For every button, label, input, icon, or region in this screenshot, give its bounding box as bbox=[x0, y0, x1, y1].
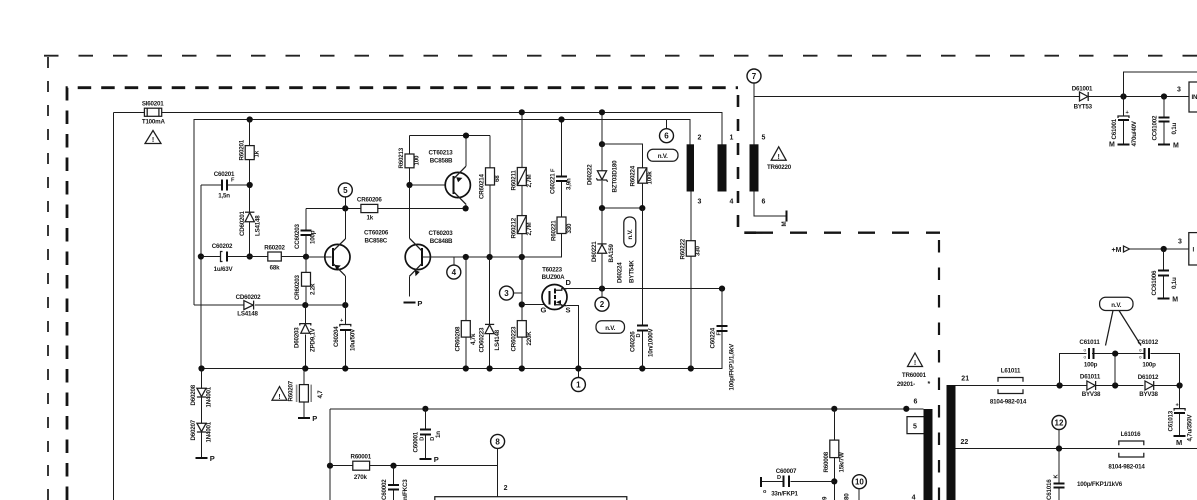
svg-text:n/FKC3: n/FKC3 bbox=[402, 479, 409, 500]
svg-text:C61013: C61013 bbox=[1168, 410, 1175, 431]
node collector rail right bbox=[463, 205, 469, 211]
svg-text:TR60001: TR60001 bbox=[902, 372, 927, 379]
wire: rail 21 bbox=[956, 385, 1087, 387]
svg-text:M: M bbox=[1109, 142, 1115, 149]
svg-text:10: 10 bbox=[855, 478, 864, 487]
svg-text:270k: 270k bbox=[354, 474, 368, 481]
warning triangle TR60001 bbox=[908, 353, 923, 367]
resistor CR60223 220K bbox=[511, 257, 534, 369]
svg-text:1N4001: 1N4001 bbox=[206, 386, 213, 407]
resistor CR60214 68 bbox=[479, 136, 502, 257]
transformer TR60001 primary winding bbox=[912, 398, 933, 500]
svg-text:L61011: L61011 bbox=[1001, 368, 1021, 375]
svg-text:R60222: R60222 bbox=[680, 238, 687, 259]
node emitter rail bbox=[463, 133, 469, 139]
svg-text:TR60220: TR60220 bbox=[767, 164, 792, 171]
svg-text:8104-982-014: 8104-982-014 bbox=[990, 399, 1027, 406]
svg-text:D61011: D61011 bbox=[1080, 374, 1101, 381]
svg-text:CR60206: CR60206 bbox=[357, 196, 383, 203]
node bottom rail x466 bbox=[463, 365, 469, 371]
svg-text:D60208: D60208 bbox=[190, 384, 197, 405]
svg-text:8: 8 bbox=[495, 437, 500, 446]
node bottom rail x642 bbox=[639, 365, 645, 371]
ground P below R60207 bbox=[298, 414, 317, 423]
ground M below CC61006 bbox=[1158, 296, 1179, 303]
wire: drain wire bbox=[567, 288, 722, 290]
node C61001 top bbox=[1120, 93, 1126, 99]
node snubber top x602 bbox=[599, 141, 605, 147]
svg-text:L61016: L61016 bbox=[1121, 431, 1142, 438]
node flag 2 bbox=[595, 289, 609, 312]
svg-text:D: D bbox=[636, 333, 642, 337]
node flag 10 bbox=[852, 475, 866, 500]
svg-text:o: o bbox=[1084, 355, 1087, 360]
node C60201/R60201 junction bbox=[247, 182, 253, 188]
svg-text:F: F bbox=[717, 332, 723, 336]
svg-text:R60224: R60224 bbox=[630, 165, 637, 186]
node CC61002 top bbox=[1161, 93, 1167, 99]
diode D60221 BA159 bbox=[591, 208, 615, 289]
svg-text:6: 6 bbox=[664, 132, 669, 141]
node base rail x466 bbox=[463, 254, 469, 260]
transformer TR60220 winding 5-6 bbox=[750, 135, 766, 206]
zener D60222 BZT03D180 bbox=[587, 144, 619, 208]
svg-text:P: P bbox=[417, 299, 422, 308]
svg-text:1k: 1k bbox=[254, 150, 261, 157]
resistor R60224 100k safety bbox=[630, 165, 654, 208]
svg-text:R60001: R60001 bbox=[351, 454, 372, 461]
svg-text:C61011: C61011 bbox=[1079, 339, 1100, 346]
svg-text:n.V.: n.V. bbox=[605, 325, 615, 332]
capacitor CC61002 0,1u bbox=[1152, 97, 1179, 144]
node winding pin6 bbox=[903, 406, 909, 412]
svg-text:CC60203: CC60203 bbox=[294, 223, 301, 249]
svg-text:IN: IN bbox=[1192, 94, 1197, 101]
node flag 6 bbox=[660, 120, 674, 143]
svg-text:100p/FKP1/1,6kV: 100p/FKP1/1,6kV bbox=[729, 343, 736, 391]
node flag 4 bbox=[447, 257, 461, 279]
inductor L61016 8104-982-014 bbox=[1108, 431, 1145, 471]
svg-text:330: 330 bbox=[566, 223, 573, 233]
svg-text:D60224: D60224 bbox=[617, 262, 624, 283]
zener D60203 ZPD9,1V bbox=[294, 305, 317, 368]
svg-text:9: 9 bbox=[822, 496, 829, 500]
wire: center tap of bypass bbox=[1114, 354, 1116, 386]
wire: gate wire bbox=[522, 304, 550, 306]
wire: inner loop line from corner to transformer pin 2 bbox=[194, 120, 690, 306]
capacitor C61013 4,7u/350V electrolytic bbox=[1168, 386, 1194, 442]
svg-text:CC61002: CC61002 bbox=[1152, 115, 1159, 141]
svg-text:R60211: R60211 bbox=[511, 170, 518, 191]
isolation boundary inner thick dashed line bbox=[67, 88, 738, 500]
svg-text:4,7k: 4,7k bbox=[470, 333, 477, 345]
capacitor C61016 100p/FKP1/1kV6 bbox=[1046, 449, 1123, 500]
resistor R60207 4,7 fusible bbox=[288, 369, 325, 418]
svg-text:68k: 68k bbox=[270, 265, 280, 272]
capacitor C61001 470u/40V electrolytic bbox=[1111, 97, 1138, 147]
transformer TR60001 secondary winding bbox=[947, 376, 970, 500]
svg-text:6: 6 bbox=[914, 398, 918, 405]
isolation boundary outer dashed line bbox=[47, 56, 49, 500]
node R60211 top on W1 bbox=[519, 109, 525, 115]
svg-text:*: * bbox=[928, 381, 931, 388]
node gate junction bbox=[519, 301, 525, 307]
resistor R60222 330 bbox=[680, 192, 702, 369]
resistor CR60208 4,7k bbox=[455, 257, 478, 369]
svg-text:C60001: C60001 bbox=[413, 431, 420, 452]
svg-text:D61001: D61001 bbox=[1072, 85, 1093, 92]
svg-text:R60201: R60201 bbox=[239, 139, 246, 160]
node W1 x602 bbox=[599, 109, 605, 115]
svg-text:o: o bbox=[1139, 348, 1142, 353]
node R60001 left bbox=[327, 463, 333, 469]
svg-text:100k: 100k bbox=[647, 171, 654, 185]
wire: winding 6 to chassis M bbox=[754, 192, 788, 227]
svg-text:CR60214: CR60214 bbox=[479, 173, 486, 199]
IC box upper right bbox=[1177, 82, 1197, 112]
svg-text:F: F bbox=[231, 178, 235, 184]
capacitor C60002 FKC3 bbox=[381, 466, 409, 500]
capacitor C60201 1,5n F bbox=[201, 171, 250, 199]
node bottom rail x578 bbox=[575, 365, 581, 371]
ground P at CT60203 emitter bbox=[403, 299, 422, 308]
node CC61006 top bbox=[1161, 246, 1167, 252]
svg-text:CC61006: CC61006 bbox=[1151, 270, 1158, 296]
resistor R60008 15k/7W bbox=[823, 406, 846, 500]
svg-text:5: 5 bbox=[343, 186, 348, 195]
resistor CR60203 2.2k bbox=[294, 257, 317, 305]
svg-text:+: + bbox=[1126, 110, 1130, 116]
svg-text:3,9n: 3,9n bbox=[566, 178, 573, 190]
svg-text:100p: 100p bbox=[310, 230, 317, 244]
svg-text:3: 3 bbox=[1178, 239, 1182, 246]
ground M below C61013 bbox=[1174, 436, 1186, 447]
svg-text:o: o bbox=[1139, 355, 1142, 360]
label +M arrow bbox=[1112, 246, 1130, 254]
svg-text:R60202: R60202 bbox=[264, 245, 285, 252]
svg-text:BA159: BA159 bbox=[608, 243, 615, 262]
inductor L61011 8104-982-014 bbox=[990, 368, 1027, 406]
wire: base rail of CT60203 to R60221 corner bbox=[466, 235, 562, 257]
svg-text:100p/FKP1/1kV6: 100p/FKP1/1kV6 bbox=[1077, 481, 1123, 488]
svg-text:1N4001: 1N4001 bbox=[206, 421, 213, 442]
capacitor C60204 10u/50V electrolytic bbox=[333, 305, 357, 368]
svg-text:C61001: C61001 bbox=[1111, 118, 1118, 139]
node bottom rail x305 bbox=[302, 365, 308, 371]
svg-text:I: I bbox=[1193, 246, 1195, 253]
node drain x722 bbox=[719, 286, 725, 292]
node C60221 top on W2 bbox=[558, 116, 564, 122]
svg-text:M: M bbox=[1176, 438, 1182, 447]
svg-text:T60223: T60223 bbox=[542, 266, 563, 273]
svg-text:D60203: D60203 bbox=[294, 327, 301, 348]
node drain x602 bbox=[599, 286, 605, 292]
svg-text:80: 80 bbox=[844, 493, 851, 500]
svg-text:D60221: D60221 bbox=[591, 241, 598, 262]
warning triangle below fuse bbox=[145, 131, 161, 145]
transistor CT60213 BC858B bbox=[398, 136, 470, 209]
svg-text:2: 2 bbox=[698, 135, 702, 142]
node snubber mid x642 bbox=[639, 205, 645, 211]
wire: mains top line from fuse to transformer pin 1 bbox=[114, 112, 723, 144]
node flag 7 bbox=[747, 69, 761, 144]
svg-text:C60202: C60202 bbox=[212, 243, 233, 250]
wire: collector rail with corner to CC60203 bbox=[306, 207, 466, 209]
svg-text:100p: 100p bbox=[1142, 362, 1156, 369]
ground M below C61001 bbox=[1109, 142, 1130, 149]
svg-text:4,7: 4,7 bbox=[317, 390, 324, 399]
svg-text:n.V.: n.V. bbox=[627, 229, 634, 239]
wire: left branch down from C60201 bbox=[200, 185, 202, 369]
node bottom rail x522 bbox=[519, 365, 525, 371]
wire: bottom common rail bbox=[202, 289, 723, 369]
wire: control common rail continuing bbox=[305, 304, 345, 306]
node rail21 x1115 bbox=[1112, 382, 1118, 388]
svg-text:8104-982-014: 8104-982-014 bbox=[1108, 464, 1145, 471]
svg-text:C60002: C60002 bbox=[381, 479, 388, 500]
svg-text:CD60202: CD60202 bbox=[236, 294, 262, 301]
wire: top feedback wire to right edge bbox=[1124, 72, 1197, 97]
node on inner line at R60201 bbox=[247, 116, 253, 122]
svg-text:CR60208: CR60208 bbox=[455, 326, 462, 352]
svg-text:S: S bbox=[566, 305, 571, 314]
node bottom rail x490 bbox=[487, 365, 493, 371]
resistor R60221 330 bbox=[551, 217, 574, 257]
node rail21 x1180 bbox=[1177, 382, 1183, 388]
transistor CT60206 BC858C bbox=[306, 208, 389, 305]
label D60224 BYT54K bbox=[617, 260, 636, 283]
svg-text:1: 1 bbox=[576, 381, 581, 390]
wire: feedback lower rail to transformer bbox=[330, 408, 924, 410]
svg-text:68: 68 bbox=[494, 175, 501, 182]
node snubber mid x602 bbox=[599, 205, 605, 211]
svg-text:BUZ90A: BUZ90A bbox=[542, 274, 566, 281]
svg-text:CR60223: CR60223 bbox=[511, 326, 518, 352]
svg-text:0,1u: 0,1u bbox=[1171, 122, 1178, 134]
svg-text:15k/7W: 15k/7W bbox=[839, 452, 846, 472]
svg-text:3: 3 bbox=[1177, 87, 1181, 94]
svg-text:LS4148: LS4148 bbox=[237, 311, 258, 318]
resistor R60201 1k bbox=[239, 120, 261, 257]
svg-text:P: P bbox=[312, 414, 317, 423]
svg-text:5: 5 bbox=[762, 135, 766, 142]
svg-text:BYV38: BYV38 bbox=[1082, 391, 1101, 398]
svg-text:2,7M: 2,7M bbox=[526, 174, 533, 187]
node C60204 top bbox=[342, 302, 348, 308]
svg-text:2,7M: 2,7M bbox=[526, 222, 533, 235]
capacitor CC60203 100p bbox=[294, 208, 317, 256]
diode CD60223 LS4148 bbox=[479, 257, 502, 369]
diode CD60201 LS4148 bbox=[239, 210, 262, 236]
node flag 3 bbox=[500, 286, 522, 304]
node base rail x522 bbox=[519, 254, 525, 260]
not-fitted marker n.V. near flag 2 bbox=[596, 321, 625, 334]
node rail21 x1060 bbox=[1057, 382, 1063, 388]
ground P below D60207 bbox=[196, 454, 215, 463]
svg-text:330: 330 bbox=[695, 246, 702, 256]
node C60001 top bbox=[422, 406, 428, 412]
warning triangle at R60207 bbox=[272, 387, 287, 402]
wire: zener column top connection bbox=[601, 112, 603, 144]
svg-text:R60212: R60212 bbox=[511, 217, 518, 238]
svg-text:o: o bbox=[763, 489, 767, 495]
svg-text:P: P bbox=[210, 454, 215, 463]
node bottom rail x691 bbox=[688, 365, 694, 371]
svg-text:2: 2 bbox=[600, 300, 605, 309]
svg-text:R60008: R60008 bbox=[823, 451, 830, 472]
svg-text:100p: 100p bbox=[1084, 362, 1098, 369]
svg-text:CT60206: CT60206 bbox=[364, 230, 389, 237]
svg-text:CT60203: CT60203 bbox=[428, 230, 453, 237]
svg-text:4: 4 bbox=[730, 199, 734, 206]
svg-text:CR60203: CR60203 bbox=[294, 274, 301, 300]
svg-text:BC858B: BC858B bbox=[430, 157, 453, 164]
node flag 12 bbox=[1052, 416, 1066, 449]
svg-text:+: + bbox=[340, 318, 344, 324]
svg-text:CD60223: CD60223 bbox=[479, 327, 486, 353]
svg-text:5: 5 bbox=[913, 423, 917, 430]
svg-text:C60224: C60224 bbox=[710, 327, 717, 348]
svg-text:F: F bbox=[551, 168, 557, 172]
svg-text:R60213: R60213 bbox=[398, 147, 405, 168]
svg-text:BZT03D180: BZT03D180 bbox=[612, 160, 619, 193]
capacitor C61012 100p bbox=[1138, 339, 1159, 368]
IC box bottom bbox=[435, 497, 627, 500]
not-fitted marker n.V. for C61011/C61012 bbox=[1100, 297, 1141, 345]
diode D60207 1N4001 bbox=[190, 419, 213, 457]
capacitor C60007 33n/FKP1 bbox=[761, 468, 837, 498]
svg-text:D: D bbox=[419, 437, 425, 441]
node base rail x490 bbox=[487, 254, 493, 260]
wire: source wire down bbox=[567, 306, 579, 369]
svg-text:M: M bbox=[1172, 296, 1178, 303]
svg-text:4,7u/350V: 4,7u/350V bbox=[1187, 414, 1194, 442]
svg-text:!: ! bbox=[278, 394, 280, 401]
svg-text:D60207: D60207 bbox=[190, 419, 197, 440]
svg-text:!: ! bbox=[778, 154, 780, 161]
node C60002 top bbox=[390, 463, 396, 469]
svg-text:n.V.: n.V. bbox=[1111, 302, 1121, 309]
svg-text:3: 3 bbox=[504, 289, 509, 298]
svg-text:P: P bbox=[434, 455, 439, 464]
svg-text:CD60201: CD60201 bbox=[239, 210, 246, 236]
resistor R60212 2,7M safety bbox=[511, 216, 534, 257]
svg-text:M: M bbox=[781, 222, 788, 227]
wire: snubber top link bbox=[602, 144, 642, 168]
diode D61001 BYT53 bbox=[1072, 85, 1189, 110]
IC box lower right bbox=[1178, 233, 1197, 265]
svg-text:SI60201: SI60201 bbox=[142, 101, 164, 108]
svg-text:220K: 220K bbox=[526, 331, 533, 346]
resistor CR60206 1k bbox=[357, 196, 383, 221]
svg-text:10u/50V: 10u/50V bbox=[350, 328, 357, 351]
svg-text:22: 22 bbox=[961, 439, 969, 446]
svg-text:1: 1 bbox=[730, 135, 734, 142]
svg-text:C61016: C61016 bbox=[1046, 479, 1053, 500]
not-fitted marker n.V. for D60224 (vertical) bbox=[624, 217, 636, 247]
label TR60001 29201- bbox=[897, 372, 931, 388]
node flag 1 bbox=[571, 368, 585, 391]
svg-text:C60007: C60007 bbox=[776, 468, 797, 475]
diode D61011 BYV38 bbox=[1080, 374, 1144, 399]
wire: +M line to IC box2 bbox=[1130, 248, 1189, 250]
svg-text:1n: 1n bbox=[435, 431, 442, 438]
svg-text:K: K bbox=[1054, 474, 1060, 478]
svg-text:29201-: 29201- bbox=[897, 381, 915, 388]
svg-text:D: D bbox=[566, 278, 572, 287]
svg-text:BC858C: BC858C bbox=[365, 237, 388, 244]
svg-text:M: M bbox=[1173, 142, 1179, 149]
node rail22 C61016 bbox=[1056, 445, 1062, 451]
svg-text:LS4148: LS4148 bbox=[255, 215, 262, 236]
svg-text:BYT54K: BYT54K bbox=[629, 260, 636, 283]
capacitor C60224 100p/FKP1/1,6kV bbox=[710, 289, 736, 391]
capacitor CC61006 0,1u bbox=[1151, 249, 1178, 298]
svg-text:BC848B: BC848B bbox=[430, 238, 453, 245]
svg-text:10n/1000V: 10n/1000V bbox=[648, 327, 655, 357]
node CC60203 base junction bbox=[303, 254, 309, 260]
node bottom rail x201 bbox=[198, 365, 204, 371]
svg-text:!: ! bbox=[914, 360, 916, 367]
svg-text:C60221: C60221 bbox=[550, 173, 557, 194]
node flag 8 bbox=[491, 434, 505, 496]
wire: snubber mid link bbox=[602, 207, 642, 209]
svg-text:G: G bbox=[541, 305, 547, 314]
svg-text:!: ! bbox=[152, 137, 154, 144]
transformer TR60220 winding 1-4 bbox=[718, 135, 734, 206]
svg-text:0,1u: 0,1u bbox=[1171, 277, 1178, 289]
wire: rail 22 bbox=[956, 448, 1197, 450]
resistor R60202 68k bbox=[250, 245, 306, 272]
svg-text:12: 12 bbox=[1055, 419, 1064, 428]
diode D61012 BYV38 bbox=[1138, 374, 1180, 398]
svg-text:+M: +M bbox=[1112, 247, 1122, 254]
ground P below C60001 bbox=[419, 455, 438, 464]
svg-text:1u/63V: 1u/63V bbox=[214, 266, 234, 273]
svg-text:7: 7 bbox=[752, 72, 757, 81]
fuse SI60201 T100mA bbox=[142, 101, 166, 126]
svg-text:o: o bbox=[1084, 348, 1087, 353]
diode CD60202 LS4148 horizontal bbox=[194, 294, 305, 318]
wire: secondary rectifier line from flag 7 bbox=[754, 96, 1080, 98]
node flag 5 bbox=[338, 183, 352, 209]
svg-text:D60222: D60222 bbox=[587, 164, 594, 185]
svg-text:33n/FKP1: 33n/FKP1 bbox=[771, 491, 798, 498]
svg-text:+: + bbox=[1176, 403, 1180, 409]
transformer TR60220 winding 2-3 bbox=[687, 135, 702, 206]
svg-text:470u/40V: 470u/40V bbox=[1131, 120, 1138, 146]
svg-text:T100mA: T100mA bbox=[142, 118, 166, 125]
node zener D60203 top bbox=[302, 302, 308, 308]
svg-text:C60204: C60204 bbox=[333, 326, 340, 347]
wire: left vertical feed line bbox=[113, 112, 115, 500]
transistor CT60203 BC848B bbox=[405, 187, 466, 297]
capacitor C60226 10n/1000V bbox=[630, 208, 655, 368]
wire: left branch of lower rail bbox=[329, 409, 331, 500]
svg-text:ZPD9,1V: ZPD9,1V bbox=[310, 327, 317, 352]
svg-text:1k: 1k bbox=[367, 215, 374, 222]
capacitor C61011 100p bbox=[1079, 339, 1100, 368]
svg-text:2.2k: 2.2k bbox=[310, 283, 317, 295]
svg-text:n.V.: n.V. bbox=[658, 153, 668, 160]
tap 5 of TR60001 bbox=[907, 417, 924, 434]
wire: snubber cap bypass rail top bbox=[1060, 354, 1180, 386]
warning triangle TR60220 bbox=[767, 147, 792, 171]
svg-text:R60207: R60207 bbox=[288, 380, 295, 401]
resistor R60001 270k bbox=[330, 454, 498, 481]
ground M below CC61002 bbox=[1158, 142, 1179, 149]
node circle5/collector junction bbox=[342, 205, 348, 211]
